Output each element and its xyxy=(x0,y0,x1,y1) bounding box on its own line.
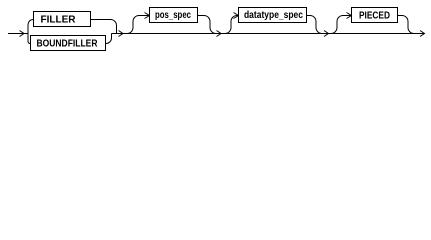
svg-text:BOUNDFILLER: BOUNDFILLER xyxy=(37,39,99,50)
svg-text:FILLER: FILLER xyxy=(41,14,77,25)
svg-text:PIECED: PIECED xyxy=(359,11,390,22)
svg-text:datatype_spec: datatype_spec xyxy=(244,10,303,21)
svg-text:pos_spec: pos_spec xyxy=(155,10,191,21)
